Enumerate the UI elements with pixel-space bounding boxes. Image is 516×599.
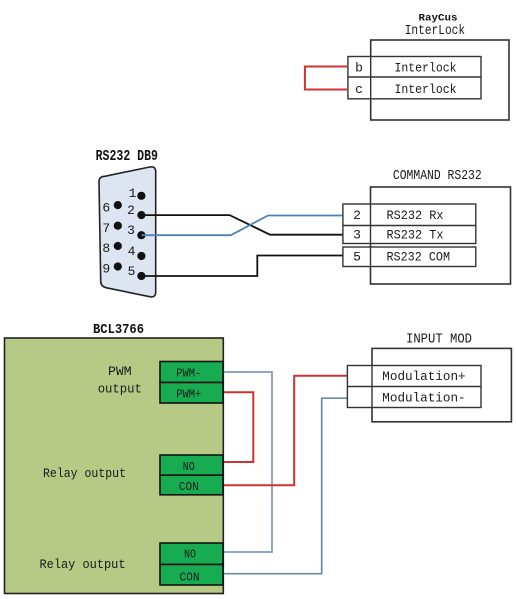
svg-text:CON: CON [180, 571, 200, 585]
svg-text:RS232 Tx: RS232 Tx [387, 228, 444, 243]
svg-text:1: 1 [129, 186, 137, 201]
svg-text:6: 6 [102, 200, 110, 215]
svg-text:CON: CON [179, 480, 199, 494]
svg-text:RS232 Rx: RS232 Rx [387, 208, 444, 223]
svg-text:c: c [355, 82, 363, 97]
svg-text:2: 2 [127, 203, 135, 218]
svg-text:Relay output: Relay output [43, 466, 126, 481]
svg-text:5: 5 [128, 264, 136, 279]
svg-text:COMMAND RS232: COMMAND RS232 [393, 169, 482, 184]
svg-text:7: 7 [102, 221, 110, 236]
svg-text:Modulation+: Modulation+ [382, 369, 465, 384]
svg-text:InterLock: InterLock [405, 23, 465, 39]
svg-text:PWM-: PWM- [176, 367, 201, 381]
svg-text:2: 2 [353, 208, 361, 223]
svg-text:5: 5 [353, 250, 361, 265]
svg-text:RS232 COM: RS232 COM [387, 250, 451, 265]
svg-text:3: 3 [127, 223, 135, 238]
svg-text:BCL3766: BCL3766 [93, 322, 144, 338]
svg-text:Relay output: Relay output [40, 557, 126, 572]
svg-text:8: 8 [102, 241, 110, 256]
svg-text:NO: NO [184, 548, 196, 562]
svg-text:PWM+: PWM+ [176, 388, 201, 402]
svg-text:3: 3 [353, 228, 361, 243]
svg-text:Interlock: Interlock [395, 82, 457, 97]
svg-text:PWM: PWM [108, 364, 132, 379]
svg-text:output: output [98, 382, 142, 397]
svg-text:RS232 DB9: RS232 DB9 [96, 149, 158, 165]
svg-text:4: 4 [128, 244, 136, 259]
svg-text:Modulation-: Modulation- [382, 391, 465, 406]
svg-text:9: 9 [102, 261, 110, 276]
svg-text:INPUT MOD: INPUT MOD [406, 332, 472, 348]
svg-text:Interlock: Interlock [395, 61, 457, 76]
svg-text:NO: NO [183, 460, 195, 474]
svg-text:b: b [355, 61, 363, 76]
